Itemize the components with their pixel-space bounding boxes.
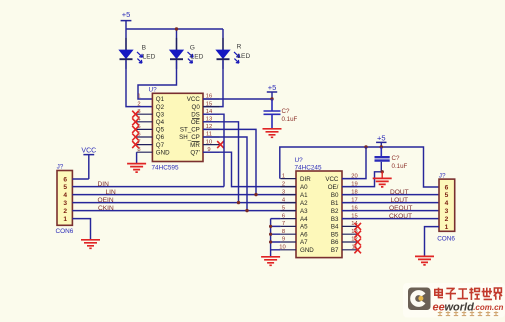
wire U1 pin14 DS down to DIN — [203, 114, 224, 186]
U1 right pin stubs 9-16 — [203, 99, 220, 152]
wire LED supply rail — [126, 29, 223, 50]
wire U2 pin19 OE/ to ground node — [342, 172, 382, 187]
svg-text:3: 3 — [282, 189, 285, 195]
no-connect X U1 pin6 — [132, 134, 139, 141]
svg-text:10: 10 — [206, 139, 212, 145]
svg-text:B4: B4 — [331, 224, 339, 231]
svg-text:Q1: Q1 — [156, 96, 165, 103]
svg-text:4: 4 — [63, 192, 67, 199]
svg-text:2: 2 — [445, 216, 449, 223]
svg-text:Q0: Q0 — [192, 104, 201, 111]
svg-text:A4: A4 — [300, 216, 308, 223]
connector J1 CON6 body — [56, 164, 74, 236]
U2 left pin names — [300, 176, 314, 254]
svg-text:OEIN: OEIN — [98, 197, 114, 204]
U1 left pin stubs 1-8 — [136, 114, 152, 152]
node LIN / ST_CP junction — [254, 193, 257, 196]
ground C1 — [263, 129, 282, 138]
no-connect X U2 pin14 — [354, 223, 361, 230]
logo slogan small text — [438, 311, 498, 315]
svg-text:B6: B6 — [331, 239, 339, 246]
ground U1 pin8 — [127, 164, 146, 173]
svg-text:B1: B1 — [331, 200, 339, 207]
svg-text:U?: U? — [295, 157, 304, 164]
svg-text:1: 1 — [282, 173, 285, 179]
svg-text:5: 5 — [445, 192, 449, 199]
U2 pin numbers right — [351, 173, 358, 250]
wire U2 pins6-10 ground bus — [271, 219, 281, 257]
svg-text:VCC: VCC — [81, 147, 96, 154]
power VCC port at J1 — [81, 147, 96, 179]
wire J1 pin1 to ground — [72, 219, 90, 240]
svg-text:J?: J? — [439, 172, 446, 179]
svg-text:OEOUT: OEOUT — [389, 205, 412, 212]
ground C2 / pin19 — [373, 172, 392, 187]
node OEIN / OE junction — [237, 201, 240, 204]
svg-text:Q5: Q5 — [156, 127, 165, 134]
svg-text:C?: C? — [282, 108, 290, 115]
svg-text:OE: OE — [191, 119, 200, 126]
svg-text:A3: A3 — [300, 208, 308, 215]
svg-text:.com.cn: .com.cn — [473, 303, 503, 312]
svg-text:ST_CP: ST_CP — [180, 127, 200, 134]
svg-text:GND: GND — [300, 247, 314, 254]
node U2 gnd bus junctions — [269, 225, 272, 244]
J1 pin numbers — [63, 177, 67, 224]
wire net DOUT U2 pin18 to J2 pin5 — [342, 194, 439, 196]
svg-text:9: 9 — [282, 237, 285, 243]
capacitor C2 0.1uF — [375, 147, 408, 172]
U2 right pin names — [325, 176, 339, 254]
ground J1 pin1 — [81, 240, 100, 249]
svg-text:SH_CP: SH_CP — [179, 134, 200, 141]
程 — [469, 288, 480, 300]
svg-text:CON6: CON6 — [56, 228, 74, 235]
wire net DIN J1 pin5 to DS drop — [72, 186, 224, 188]
svg-text:Q3: Q3 — [156, 111, 165, 118]
svg-text:CKOUT: CKOUT — [389, 213, 412, 220]
svg-text:MR: MR — [190, 142, 200, 149]
svg-text:DS: DS — [191, 111, 200, 118]
U2 right pin stubs — [342, 179, 358, 250]
svg-text:2: 2 — [63, 208, 67, 215]
svg-text:+5: +5 — [122, 10, 131, 19]
svg-text:1: 1 — [137, 94, 140, 100]
svg-text:3: 3 — [445, 208, 449, 215]
svg-text:Q6: Q6 — [156, 134, 165, 141]
svg-text:U?: U? — [149, 87, 158, 94]
node pin19 / C2 / gnd junction — [381, 170, 384, 173]
wire J2 pin1 to ground — [425, 227, 440, 256]
wire J1 pin6 to VCC — [72, 178, 88, 180]
node DOUT label — [390, 189, 409, 196]
wire net OEOUT U2 pin16 to J2 pin3 — [342, 210, 439, 212]
界 — [494, 288, 502, 300]
svg-text:LED: LED — [143, 54, 156, 61]
wire net CKOUT U2 pin15 to J2 pin2 — [342, 218, 439, 220]
node OEOUT label — [389, 205, 412, 212]
wire net CKIN J1 pin2 to U2 pin5 — [72, 210, 296, 212]
ground J2 pin1 — [415, 256, 434, 265]
svg-text:B0: B0 — [331, 192, 339, 199]
svg-text:2: 2 — [137, 101, 140, 107]
node LIN label — [106, 189, 116, 196]
svg-text:B: B — [142, 44, 147, 51]
svg-text:DIR: DIR — [300, 176, 311, 183]
logo title 电子工程世界 (drawn strokes) — [435, 288, 502, 300]
svg-text:6: 6 — [282, 213, 285, 219]
svg-text:+5: +5 — [268, 83, 277, 92]
U2 left pin stubs — [280, 179, 296, 250]
svg-text:R: R — [237, 44, 242, 51]
node CKIN label — [98, 205, 114, 212]
svg-text:CON6: CON6 — [437, 236, 455, 243]
svg-text:74HC245: 74HC245 — [295, 165, 322, 172]
U1 pin numbers left — [137, 94, 141, 153]
wire U1 GND pin8 — [136, 152, 138, 163]
no-connect X U2 pin11 — [354, 246, 361, 253]
wire net OEIN J1 pin3 to U2 pin4 — [72, 202, 296, 204]
power +5 P3 (U2 VCC) — [376, 133, 386, 147]
wire LED R cathode to U1 pin15 — [203, 60, 223, 106]
工 — [457, 289, 468, 299]
svg-text:4: 4 — [445, 200, 449, 207]
svg-text:world: world — [445, 301, 475, 313]
svg-text:5: 5 — [63, 184, 67, 191]
node rail / pin20 junction — [364, 145, 367, 148]
node CKIN / SH_CP junction — [245, 209, 248, 212]
svg-text:7: 7 — [282, 221, 285, 227]
svg-text:A1: A1 — [300, 192, 308, 199]
no-connect X U1 pin7 — [132, 141, 139, 148]
node rail / C2 junction — [380, 145, 383, 148]
svg-text:6: 6 — [63, 177, 67, 184]
世 — [482, 288, 492, 300]
svg-text:GND: GND — [156, 149, 170, 156]
wire U1 pin9 Q7' to U2 pin2 A0 — [203, 152, 296, 186]
svg-text:0.1uF: 0.1uF — [282, 116, 298, 123]
wire net LIN J1 pin4 to U2 pin3 — [72, 194, 296, 196]
J2 pin numbers — [445, 185, 449, 232]
svg-text:ee: ee — [433, 301, 445, 313]
svg-text:CKIN: CKIN — [98, 205, 114, 212]
wire LED B cathode to U1 pin2 — [126, 60, 152, 106]
svg-text:6: 6 — [445, 185, 449, 192]
LED R — [216, 38, 250, 69]
no-connect X U2 pin12 — [354, 239, 361, 246]
wire LED G cathode to U1 pin1 — [138, 60, 177, 99]
wire U1 pin13 OE down to OEIN — [203, 122, 239, 203]
node CKOUT label — [389, 213, 412, 220]
wire net LOUT U2 pin17 to J2 pin4 — [342, 202, 439, 204]
svg-text:1: 1 — [63, 216, 67, 223]
logo icon eeworld C — [408, 288, 431, 311]
svg-text:Q2: Q2 — [156, 104, 165, 111]
LED B — [119, 38, 155, 69]
node rail-G junction — [175, 27, 178, 30]
node DIN label — [98, 181, 110, 188]
no-connect X U2 pin13 — [354, 231, 361, 238]
svg-text:VCC: VCC — [325, 176, 339, 183]
node U1 VCC junction — [270, 97, 273, 100]
子 — [446, 288, 456, 299]
svg-text:+5: +5 — [377, 133, 386, 142]
logo eeworld.com.cn — [433, 301, 504, 313]
电 — [435, 288, 443, 298]
svg-text:A7: A7 — [300, 239, 308, 246]
node LOUT label — [391, 197, 409, 204]
wire U2 pin20 VCC up to rail — [342, 147, 366, 179]
U1 pin numbers right — [206, 94, 213, 153]
svg-text:8: 8 — [282, 229, 285, 235]
svg-text:B7: B7 — [331, 247, 339, 254]
svg-text:B3: B3 — [331, 216, 339, 223]
power +5 P2 (U1 VCC) — [267, 83, 277, 99]
svg-text:A0: A0 — [300, 184, 308, 191]
no-connect X U1 pin5 — [132, 126, 139, 133]
svg-text:Q7: Q7 — [156, 142, 165, 149]
wire U1 pin16 VCC to +5 — [203, 98, 272, 100]
svg-text:2: 2 — [282, 181, 285, 187]
LED G — [170, 38, 204, 69]
ground U2 A-side — [261, 257, 280, 266]
wire U1 pin12 ST_CP down to LIN — [203, 129, 256, 194]
svg-text:J?: J? — [57, 164, 64, 171]
svg-text:LOUT: LOUT — [391, 197, 409, 204]
svg-text:B2: B2 — [331, 208, 339, 215]
U2 pin numbers left — [279, 173, 286, 250]
U1 left pin names — [156, 96, 170, 156]
svg-text:Q4: Q4 — [156, 119, 165, 126]
svg-text:LIN: LIN — [106, 189, 116, 196]
svg-text:5: 5 — [282, 205, 285, 211]
svg-text:Q7': Q7' — [190, 149, 199, 156]
svg-text:DOUT: DOUT — [390, 189, 409, 196]
svg-text:15: 15 — [206, 101, 212, 107]
svg-text:0.1uF: 0.1uF — [392, 163, 408, 170]
op IC U1 74HC595 body — [149, 87, 204, 172]
no-connect X U1 pin10 — [217, 141, 224, 148]
svg-text:74HC595: 74HC595 — [152, 164, 179, 171]
capacitor C1 0.1uF — [264, 99, 298, 128]
power +5 P1 (LED rail) — [121, 10, 132, 29]
svg-text:B5: B5 — [331, 231, 339, 238]
svg-text:A6: A6 — [300, 231, 308, 238]
logo backdrop — [403, 283, 505, 318]
svg-text:DIN: DIN — [98, 181, 110, 188]
U1 overbars on OE and MR — [192, 119, 200, 142]
svg-text:VCC: VCC — [187, 96, 201, 103]
svg-text:G: G — [190, 44, 195, 51]
svg-text:LED: LED — [191, 54, 204, 61]
op IC U2 74HC245 body — [295, 157, 343, 258]
connector J2 CON6 body — [437, 172, 455, 242]
svg-text:1: 1 — [445, 224, 449, 231]
U1 right pin names — [179, 96, 200, 156]
svg-text:A5: A5 — [300, 224, 308, 231]
svg-text:OE/: OE/ — [328, 184, 339, 191]
svg-text:A2: A2 — [300, 200, 308, 207]
no-connect X U1 pin3 — [132, 111, 139, 118]
svg-text:3: 3 — [63, 200, 67, 207]
svg-text:C?: C? — [392, 155, 400, 162]
svg-text:LED: LED — [237, 53, 250, 60]
no-connect X U1 pin4 — [132, 118, 139, 125]
wire U1 pin11 SH_CP down to CKIN — [203, 137, 247, 211]
wire U2 pin1 DIR up to +5 rail — [280, 147, 439, 187]
node OEIN label — [98, 197, 114, 204]
